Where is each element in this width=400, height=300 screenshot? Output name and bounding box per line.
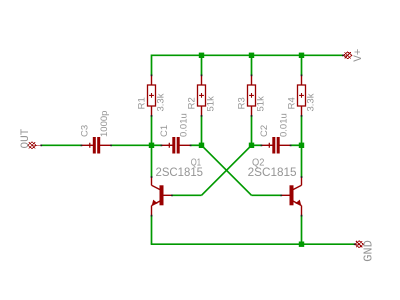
svg-text:0.01u: 0.01u — [279, 113, 290, 137]
svg-text:C3: C3 — [79, 125, 90, 137]
svg-text:C1: C1 — [159, 125, 170, 137]
svg-text:2SC1815: 2SC1815 — [248, 165, 297, 179]
svg-text:R1: R1 — [137, 97, 148, 109]
svg-text:51k: 51k — [256, 96, 267, 112]
svg-text:3.3k: 3.3k — [156, 93, 167, 111]
svg-text:GND: GND — [361, 240, 375, 262]
svg-text:R4: R4 — [287, 97, 298, 109]
svg-text:C2: C2 — [259, 125, 270, 137]
svg-text:R2: R2 — [187, 97, 198, 109]
svg-text:OUT: OUT — [20, 128, 32, 148]
svg-text:0.01u: 0.01u — [179, 113, 190, 137]
svg-text:1000p: 1000p — [99, 111, 110, 137]
svg-text:3.3k: 3.3k — [306, 93, 317, 111]
svg-text:R3: R3 — [237, 97, 248, 109]
svg-text:51k: 51k — [206, 96, 217, 112]
svg-text:2SC1815: 2SC1815 — [156, 165, 204, 179]
svg-text:V+: V+ — [353, 49, 365, 62]
